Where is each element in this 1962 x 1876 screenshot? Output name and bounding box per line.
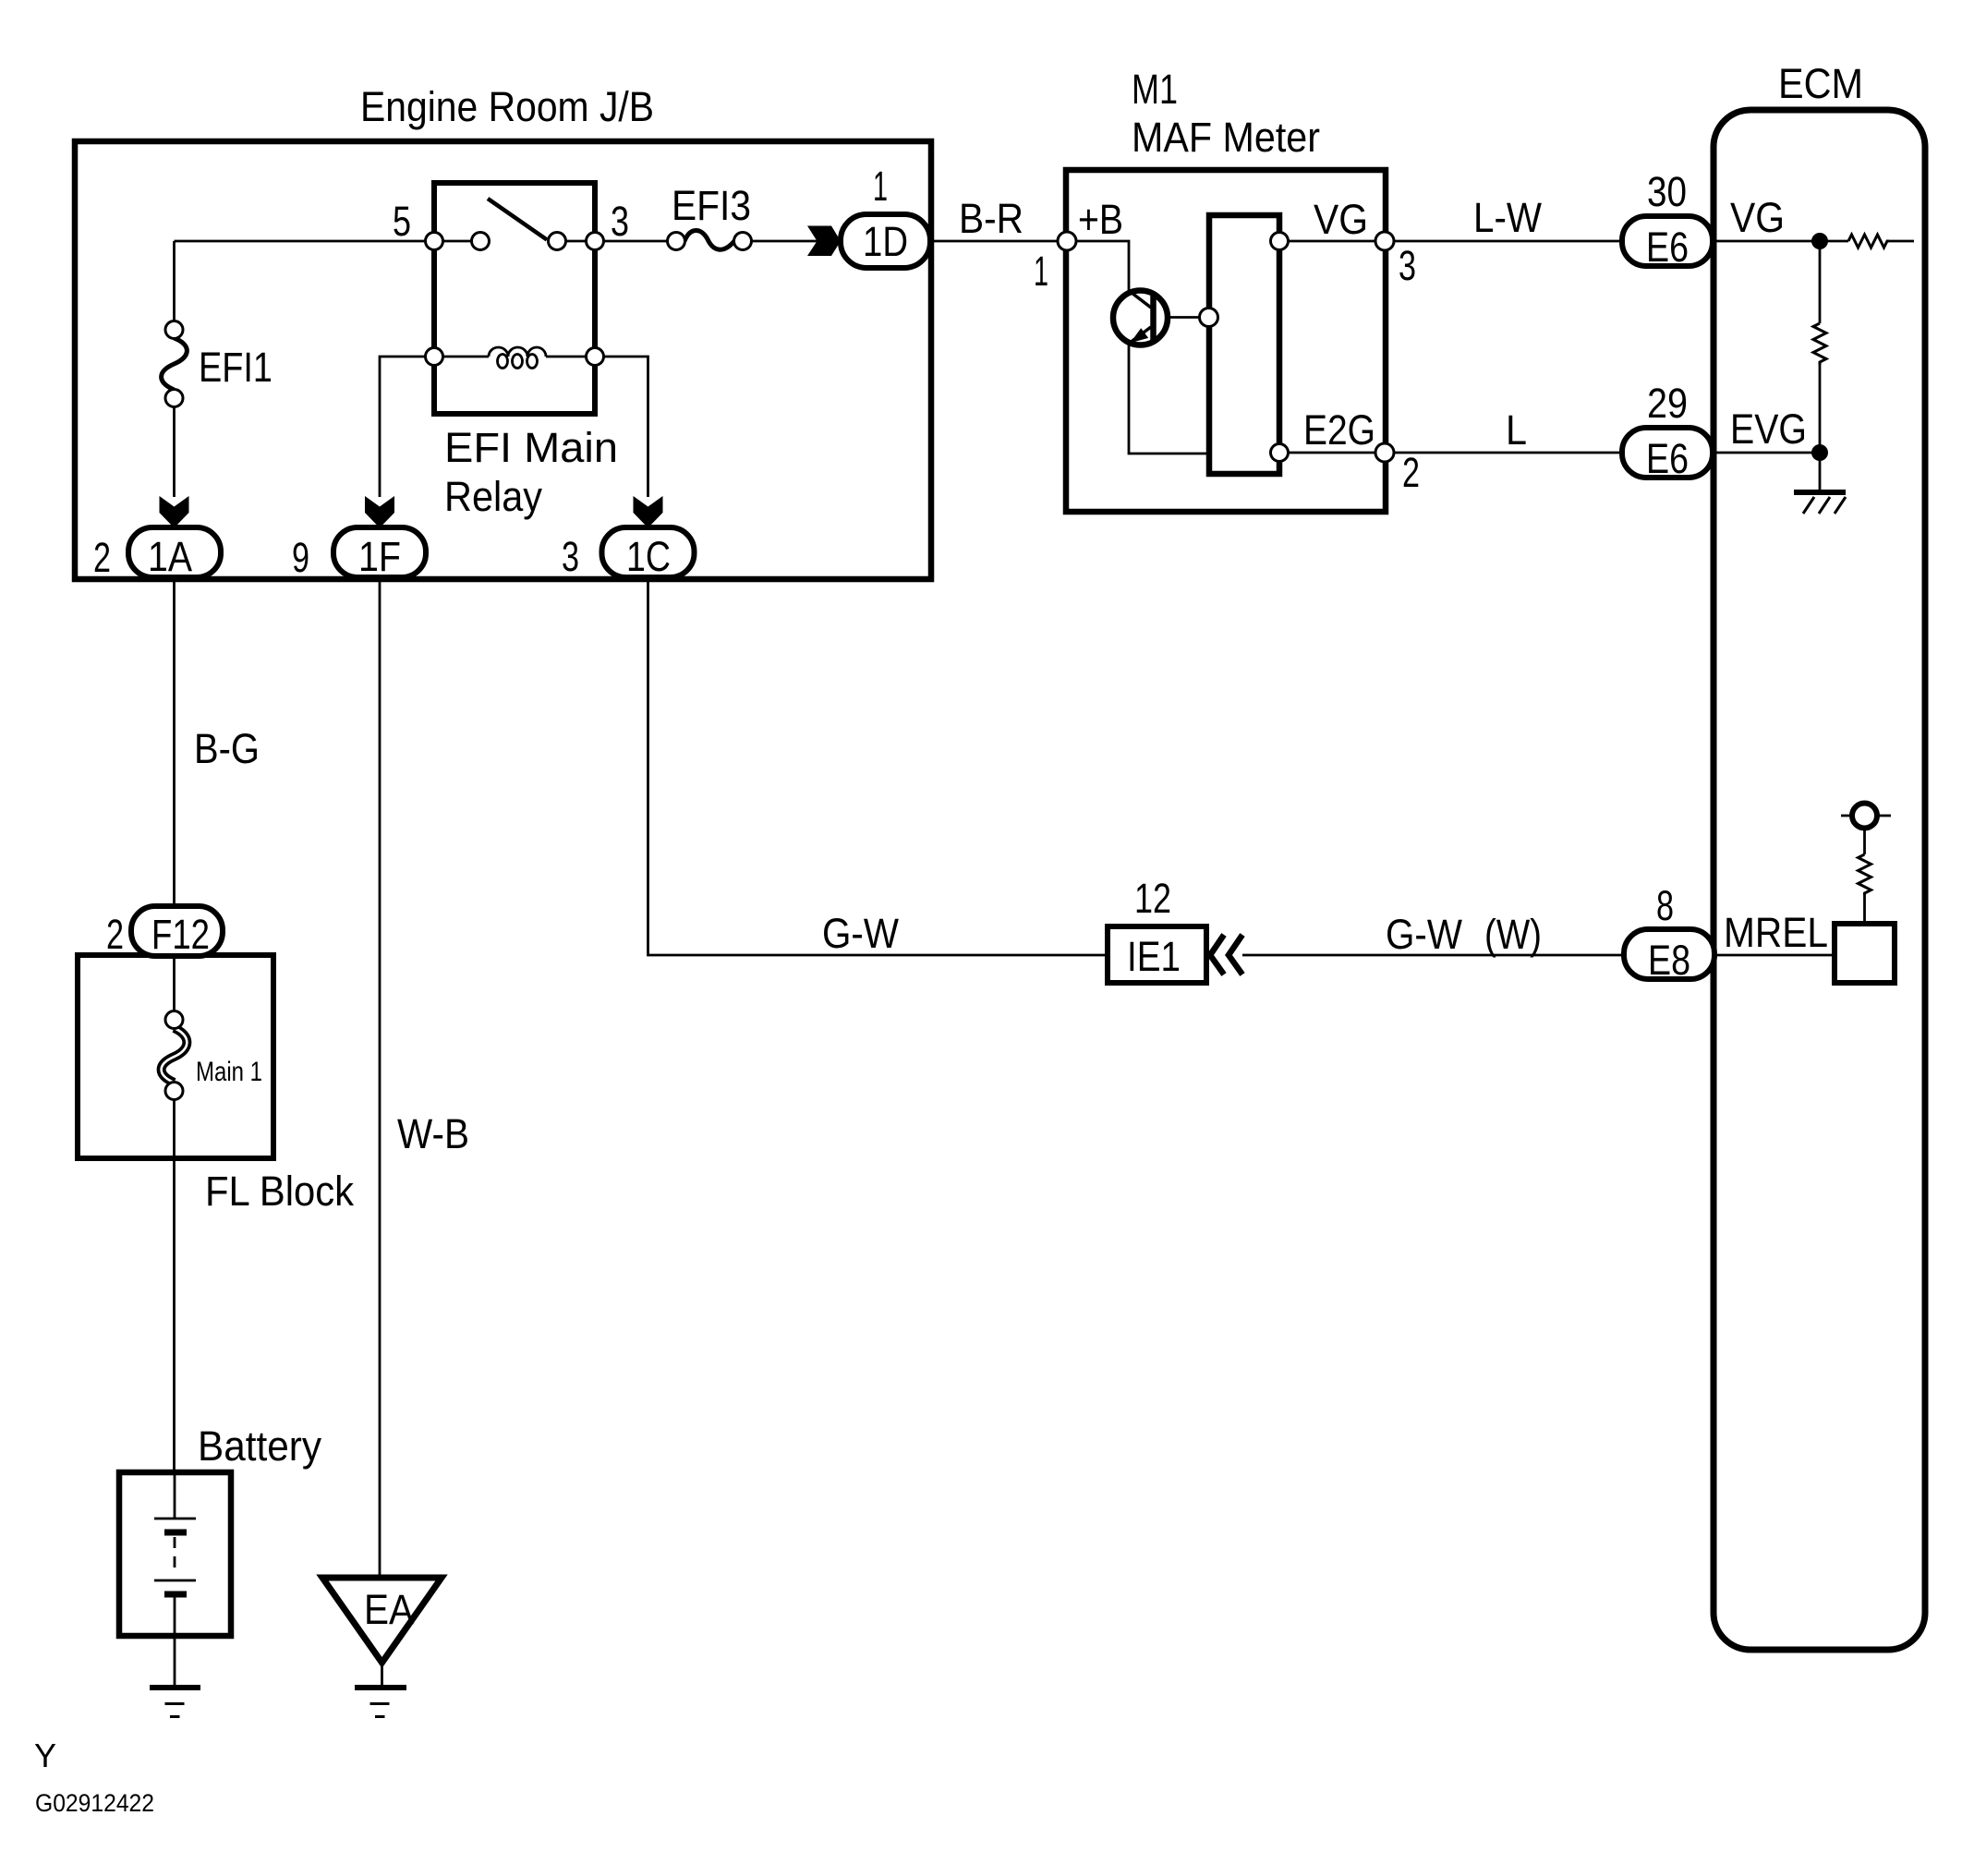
- svg-text:1D: 1D: [863, 218, 908, 265]
- svg-text:G-W: G-W: [822, 910, 899, 957]
- svg-text:VG: VG: [1314, 196, 1368, 243]
- svg-text:L-W: L-W: [1473, 194, 1542, 241]
- svg-text:ECM: ECM: [1778, 60, 1863, 107]
- svg-text:MAF Meter: MAF Meter: [1132, 114, 1320, 161]
- svg-text:Battery: Battery: [198, 1422, 321, 1470]
- svg-text:VG: VG: [1730, 194, 1785, 241]
- svg-text:EVG: EVG: [1730, 405, 1807, 453]
- svg-text:(W): (W): [1484, 911, 1542, 958]
- svg-text:1: 1: [873, 163, 888, 210]
- svg-text:E6: E6: [1646, 224, 1689, 271]
- svg-text:3: 3: [611, 198, 629, 245]
- svg-text:EFI Main: EFI Main: [444, 424, 618, 471]
- svg-text:W-B: W-B: [397, 1110, 469, 1157]
- svg-text:+B: +B: [1078, 196, 1123, 243]
- svg-text:G02912422: G02912422: [35, 1789, 154, 1817]
- svg-text:G-W: G-W: [1386, 911, 1462, 958]
- svg-text:2: 2: [106, 911, 124, 958]
- svg-text:F12: F12: [151, 911, 210, 958]
- svg-text:2: 2: [1402, 449, 1420, 496]
- svg-text:5: 5: [393, 198, 411, 245]
- svg-text:EFI1: EFI1: [199, 344, 272, 391]
- svg-text:1F: 1F: [358, 533, 401, 580]
- svg-text:3: 3: [1399, 242, 1416, 289]
- svg-text:1: 1: [1034, 248, 1048, 295]
- svg-text:L: L: [1506, 406, 1527, 454]
- svg-text:12: 12: [1134, 875, 1171, 922]
- svg-text:30: 30: [1647, 168, 1687, 215]
- svg-text:Y: Y: [34, 1737, 56, 1774]
- svg-text:MREL: MREL: [1724, 909, 1828, 956]
- svg-text:EA: EA: [364, 1586, 414, 1633]
- svg-text:IE1: IE1: [1127, 933, 1181, 980]
- svg-text:1C: 1C: [626, 533, 671, 580]
- svg-text:29: 29: [1647, 380, 1688, 427]
- svg-text:3: 3: [562, 533, 579, 580]
- svg-text:B-R: B-R: [959, 195, 1023, 242]
- svg-text:Engine Room J/B: Engine Room J/B: [360, 83, 654, 130]
- svg-text:8: 8: [1656, 882, 1674, 929]
- svg-text:Main 1: Main 1: [196, 1057, 262, 1087]
- svg-text:1A: 1A: [148, 533, 192, 580]
- svg-text:Relay: Relay: [444, 473, 542, 520]
- svg-text:EFI3: EFI3: [672, 182, 751, 229]
- svg-text:FL Block: FL Block: [205, 1168, 354, 1215]
- svg-text:9: 9: [292, 534, 309, 581]
- svg-text:E8: E8: [1648, 937, 1690, 984]
- svg-text:E2G: E2G: [1303, 406, 1375, 454]
- svg-text:B-G: B-G: [194, 725, 260, 772]
- svg-text:E6: E6: [1646, 435, 1689, 482]
- svg-text:2: 2: [93, 534, 111, 581]
- svg-text:M1: M1: [1132, 66, 1178, 113]
